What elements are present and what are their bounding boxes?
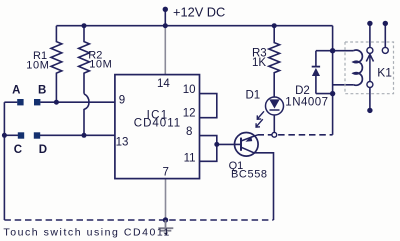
svg-text:13: 13	[116, 137, 129, 149]
wire D2 top stub	[316, 50, 333, 52]
wire pins 10-12 link	[200, 94, 217, 118]
wire +12V top rail	[56, 25, 332, 27]
resistor R3	[269, 26, 280, 97]
svg-text:K1: K1	[377, 66, 392, 80]
ground symbol tip	[163, 233, 168, 235]
svg-text:14: 14	[157, 78, 170, 90]
wire pins 8-11 link	[200, 136, 217, 162]
junction R1 bottom / pin9 wire	[54, 100, 59, 105]
wire Q1 collector to ground rail	[241, 147, 274, 220]
node relay NO terminal dot	[383, 21, 388, 26]
transistor Q1 emitter arrow	[245, 136, 252, 142]
wire R2 hop over pin9 wire	[84, 94, 89, 136]
touch pad A	[17, 99, 23, 105]
transistor Q1 emitter line	[241, 135, 258, 141]
diode D2 leads	[315, 51, 317, 94]
svg-text:D2: D2	[295, 85, 310, 97]
node D2 anode / coil bottom	[330, 91, 335, 96]
wire pad C left segment	[4, 134, 18, 136]
svg-text:+12V DC: +12V DC	[173, 5, 225, 20]
touch pad B	[34, 99, 40, 105]
svg-text:7: 7	[163, 167, 169, 179]
svg-text:12: 12	[183, 108, 196, 120]
LED D1 emission arrow 1	[257, 111, 264, 119]
svg-text:10: 10	[183, 84, 196, 96]
node relay common terminal dot	[367, 108, 372, 113]
svg-text:10M: 10M	[89, 58, 112, 70]
wire D2 bottom stub	[316, 93, 333, 95]
junction ground rail / pin7	[163, 217, 168, 222]
svg-text:C: C	[14, 144, 22, 156]
ground	[158, 220, 173, 231]
LED D1 circle	[266, 97, 284, 115]
wire +12V terminal stub	[164, 9, 166, 25]
diode D2 bar	[312, 66, 320, 68]
resistor R2	[79, 26, 90, 94]
svg-text:D: D	[39, 144, 47, 156]
wire Q1 emitter to relay node (dashed)	[258, 134, 333, 136]
wire coil bottom stub	[333, 84, 354, 86]
junction rail / R2 top	[82, 23, 87, 28]
wire relay NC terminal	[369, 23, 371, 47]
svg-text:1K: 1K	[252, 57, 266, 69]
junction left vertical / pin13 wire	[2, 133, 7, 138]
svg-text:CD4011: CD4011	[134, 118, 181, 130]
wire pad B to pin9	[40, 101, 115, 103]
wire Q1 base	[217, 143, 241, 145]
svg-text:BC558: BC558	[231, 169, 268, 181]
wire bottom ground rail	[4, 219, 273, 221]
wire pad D to pin13	[40, 134, 115, 136]
junction rail / pin14	[163, 23, 168, 28]
node D2 cathode / coil top	[330, 48, 335, 53]
wire left vertical	[3, 102, 5, 220]
transistor Q1 circle	[235, 133, 259, 157]
touch pad D	[34, 132, 40, 138]
svg-text:1N4007: 1N4007	[285, 97, 328, 109]
wire D1 cathode down	[273, 115, 275, 135]
wire coil top stub	[333, 50, 354, 52]
relay contact circle NC	[367, 47, 373, 53]
junction rail / R3 top	[272, 23, 277, 28]
svg-text:9: 9	[119, 95, 125, 107]
svg-text:10M: 10M	[26, 59, 49, 71]
svg-text:B: B	[38, 84, 46, 96]
svg-text:11: 11	[184, 153, 196, 165]
wire relay node vertical	[332, 26, 334, 135]
node +12V terminal dot	[163, 7, 168, 12]
wire pad A left segment	[4, 101, 17, 103]
IC1 box	[115, 75, 200, 179]
svg-text:Touch switch using CD4011: Touch switch using CD4011	[3, 227, 171, 239]
node ring at D1/emitter junction	[272, 132, 277, 137]
resistor R1	[51, 26, 62, 103]
svg-text:A: A	[12, 84, 20, 96]
wire pin7 vertical	[165, 179, 167, 220]
LED D1 emission arrow 2	[256, 119, 263, 127]
wire relay common terminal	[369, 88, 371, 111]
junction pin8-11 link / Q1 base	[214, 142, 219, 147]
relay armature with arrow	[366, 54, 373, 81]
svg-text:D1: D1	[246, 90, 261, 102]
svg-text:8: 8	[186, 126, 192, 138]
touch pad C	[18, 132, 24, 138]
LED D1 triangle	[269, 99, 279, 108]
relay K1 dashed box	[345, 42, 394, 94]
junction R2 bottom / pin13 wire	[82, 133, 87, 138]
node relay NC terminal dot	[367, 21, 372, 26]
LED D1 bar	[270, 109, 280, 111]
wire pin14 vertical	[164, 26, 166, 75]
diode D2 triangle	[312, 68, 320, 76]
relay common circle	[367, 82, 373, 88]
relay contact circle NO	[382, 47, 388, 53]
relay K1 coil	[353, 50, 362, 85]
transistor Q1 base bar	[240, 138, 242, 151]
wire relay NO terminal	[384, 23, 386, 47]
